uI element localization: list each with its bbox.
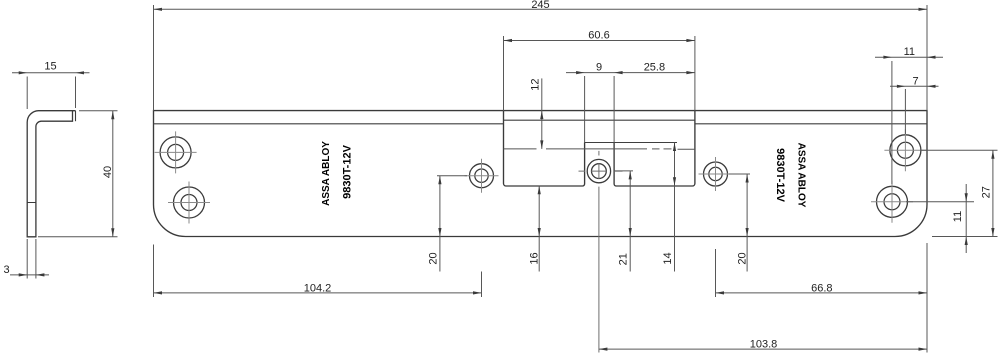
svg-text:11: 11 [952,211,964,222]
dim 3 [10,239,49,279]
dim 16 [538,186,540,272]
hole H6 bottom-right [871,181,913,223]
svg-text:25.8: 25.8 [644,62,665,74]
dim 20 left [437,176,467,272]
svg-text:11: 11 [904,46,915,58]
dim 245 [154,5,928,111]
svg-text:20: 20 [736,252,748,264]
hole H5 right-middle [699,157,733,191]
dim 9 and 25.8 [566,73,695,143]
plate outline (front view) [154,111,928,237]
keeper notch top line A [585,142,677,144]
dim 14 [674,143,676,272]
svg-text:14: 14 [662,252,674,264]
dim 15 [12,73,90,109]
svg-text:3: 3 [3,264,9,276]
svg-text:66.8: 66.8 [811,282,832,294]
svg-text:21: 21 [618,253,630,265]
hole H1 top-left [155,131,197,173]
dim 40 [38,111,118,237]
dim 103.8 [599,348,927,350]
dim 60.6 [504,36,695,111]
svg-text:103.8: 103.8 [750,339,778,351]
svg-text:9830T-12V: 9830T-12V [342,144,354,198]
dim 66.8 [716,243,928,353]
svg-text:ASSA ABLOY: ASSA ABLOY [796,143,807,208]
dim 11 top-right [875,57,943,184]
dim 27 [920,150,998,236]
block inner top line [504,119,695,121]
dim 7 [890,86,939,134]
svg-text:40: 40 [102,166,114,178]
hole H4 center [579,151,623,353]
svg-text:104.2: 104.2 [304,282,332,294]
dim 21 [615,171,634,272]
dim 104.2 [154,245,482,298]
hole H3 left-middle [465,159,499,193]
svg-text:ASSA ABLOY: ASSA ABLOY [321,141,332,206]
dim 12 [541,78,543,148]
svg-text:60.6: 60.6 [588,30,609,42]
svg-text:16: 16 [528,252,540,264]
dim 11 right [906,184,974,253]
svg-text:9830T-12V: 9830T-12V [774,148,786,202]
dim 20 right [729,174,750,272]
side view hole edge line [27,202,36,204]
svg-text:27: 27 [980,186,992,198]
latch centerline B [504,148,695,150]
side view L-profile outline [27,111,75,237]
svg-text:15: 15 [44,61,56,73]
plate fold line left segment [154,123,504,125]
svg-text:7: 7 [912,75,918,87]
svg-text:245: 245 [531,0,549,11]
svg-text:12: 12 [529,78,541,90]
hole H7 top-right [884,129,926,171]
svg-text:9: 9 [596,62,602,74]
plate fold line right segment [695,123,927,125]
hole H2 bottom-left [168,182,210,224]
strike block outline [504,111,695,186]
svg-text:20: 20 [427,252,439,264]
